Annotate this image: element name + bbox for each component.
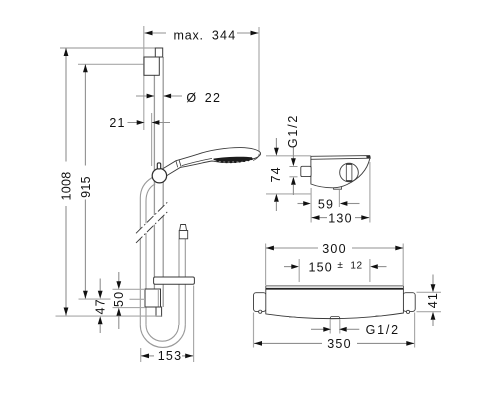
extension line body bottom (74 bottom) — [266, 193, 311, 195]
knob circle side view — [340, 163, 359, 182]
extension line shelf top (74 top) — [266, 155, 311, 157]
svg-text:22: 22 — [205, 91, 221, 105]
right end cap — [403, 293, 415, 312]
svg-text:59: 59 — [318, 197, 334, 211]
knob grip lines — [345, 164, 347, 182]
extension line 350 right — [414, 313, 416, 348]
svg-text:153: 153 — [158, 349, 182, 363]
dimension Ø 22 — [136, 94, 182, 99]
lower wall bracket — [145, 289, 161, 307]
svg-text:G1/2: G1/2 — [286, 114, 300, 148]
shower rail left line — [153, 75, 155, 215]
outlet stub front view — [330, 317, 340, 319]
svg-text:350: 350 — [327, 337, 351, 351]
rail end piece — [156, 307, 162, 316]
dimension max. 344 — [145, 31, 259, 36]
svg-text:50: 50 — [112, 291, 126, 307]
left cap screw — [259, 310, 262, 313]
svg-text:±: ± — [337, 260, 343, 271]
svg-text:Ø: Ø — [186, 91, 196, 105]
hose left outer line — [140, 178, 152, 230]
thermostat body front view — [266, 289, 404, 318]
svg-text:41: 41 — [426, 292, 440, 308]
extension line bracket bottom (50 bottom) — [113, 307, 146, 309]
handle cone joint lines — [176, 161, 178, 168]
spray face dark band — [214, 157, 253, 162]
svg-text:300: 300 — [322, 242, 346, 256]
extension line G1/2 outlet left — [329, 319, 331, 333]
dimension 50 — [116, 272, 121, 329]
dimension 300 — [266, 246, 403, 251]
svg-text:915: 915 — [79, 176, 93, 198]
hose fitting nut — [179, 231, 188, 239]
extension line (915 top reference) — [78, 63, 144, 65]
hose shelf / soap dish — [154, 277, 195, 284]
extension line 41 top — [417, 291, 442, 293]
break mark diagonal 2 — [136, 211, 168, 243]
dimension 1008 vertical — [64, 48, 69, 316]
extension line bar end (915 bottom / 47 top) — [79, 298, 111, 300]
extension line shower head right (max.344 right) — [258, 27, 260, 152]
shelf band dark edge — [266, 288, 404, 290]
extension line 153 right — [193, 286, 195, 363]
svg-text:74: 74 — [269, 166, 283, 182]
dimension 915 vertical — [83, 64, 88, 298]
extension line 150 left — [298, 259, 300, 282]
upper wall bracket — [144, 57, 159, 75]
hose U-turn at bottom — [140, 325, 185, 348]
hose right lines up to fitting — [184, 239, 186, 325]
dimension 59 — [298, 201, 360, 206]
extension line body left (59/130 left) — [310, 188, 312, 223]
svg-text:G1/2: G1/2 — [366, 323, 400, 337]
inlet nipple G1/2 — [301, 166, 311, 176]
right cap screw — [406, 310, 409, 313]
dimension 153 — [141, 354, 193, 359]
bottom tick left — [289, 316, 296, 318]
outlet stub side view — [334, 187, 342, 189]
dimension 47 — [98, 279, 103, 334]
slider holder circle — [152, 169, 166, 183]
dimension 21 — [128, 120, 171, 125]
spray face nozzles — [216, 158, 252, 163]
extension line 350 left — [253, 313, 255, 348]
shelf front dark edge — [366, 156, 370, 159]
lower bracket inner line — [157, 289, 159, 307]
dimension G1/2 arrows — [289, 148, 297, 196]
wall bar top cap — [155, 48, 162, 57]
svg-text:344: 344 — [212, 28, 236, 42]
extension line outlet (59 right) — [338, 190, 340, 207]
extension line 300 left — [265, 244, 267, 286]
extension line rail bottom (1008 bottom / 47 bottom) — [56, 315, 162, 317]
hose fitting cone — [180, 225, 187, 231]
bottom tick right — [376, 315, 382, 317]
extension line 41 bottom — [417, 311, 442, 313]
shower rail right line — [162, 57, 164, 206]
extension line 153 left — [140, 348, 142, 362]
extension line wall face (max.344 left / 21 left) — [143, 26, 145, 130]
extension line G1/2 outlet right — [339, 319, 341, 333]
svg-text:130: 130 — [328, 211, 352, 225]
dimension 41 — [431, 275, 436, 327]
extension line 150 right — [369, 259, 371, 282]
dimension 74 — [274, 138, 279, 211]
svg-text:1008: 1008 — [59, 171, 73, 200]
dimension 150 +-12 — [284, 264, 387, 269]
svg-text:12: 12 — [350, 260, 362, 271]
svg-text:max.: max. — [174, 28, 204, 42]
dimension 130 — [312, 215, 370, 220]
head neck inner line — [182, 158, 212, 165]
slider holder pin — [157, 163, 160, 169]
dimension G1/2 bottom — [311, 327, 359, 332]
extension line 21 right — [151, 113, 153, 166]
extension line bracket top (50 top) — [113, 288, 146, 290]
thermostat body side view — [311, 159, 370, 188]
svg-text:150: 150 — [309, 260, 333, 274]
left end cap — [254, 293, 267, 312]
break mark diagonal 1 — [136, 201, 168, 233]
hose left inner line — [146, 184, 155, 224]
extension line top-left (1008 top reference) — [60, 47, 155, 49]
glass shelf side view — [311, 156, 370, 160]
svg-text:21: 21 — [109, 116, 125, 130]
dimension 350 — [254, 341, 414, 346]
extension line shelf front (130 right) — [369, 162, 371, 223]
svg-text:47: 47 — [94, 298, 108, 314]
front view glass shelf band — [266, 286, 404, 289]
extension line 300 right — [402, 244, 404, 286]
head right rim line — [253, 154, 259, 161]
hand shower body (handle + neck + head) — [161, 148, 261, 178]
